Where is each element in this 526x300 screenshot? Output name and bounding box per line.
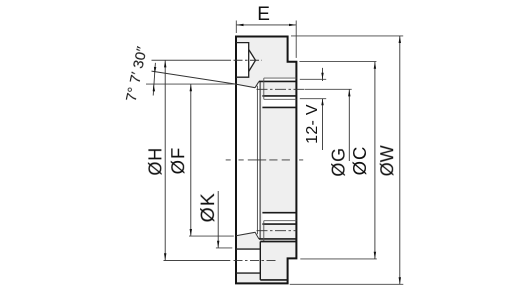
svg-text:ØC: ØC [349, 146, 370, 176]
mirror clearance band lower [264, 239, 297, 241]
bottom stud hole centerline [234, 260, 278, 262]
dimension 12-V lower arrow [321, 99, 323, 105]
dimension F top arrow [190, 84, 192, 91]
svg-text:ØH: ØH [145, 147, 165, 176]
body outline [236, 37, 296, 284]
mirror tapped hole minor bottom [259, 238, 297, 240]
thread end line [263, 78, 265, 99]
dimension E right extension [295, 21, 297, 58]
dimension 12-V upper tail [322, 68, 324, 81]
bottom stud hole top line [236, 248, 260, 250]
cam pocket left wall [259, 242, 261, 280]
angle dimension line [153, 63, 155, 96]
taper line extended [152, 71, 256, 88]
tapped hole centerline top [257, 88, 306, 90]
taper reference horizontal [146, 83, 236, 85]
mirror tapped hole minor top [262, 223, 296, 225]
bottom stud hole bottom line [236, 272, 260, 274]
svg-text:ØG: ØG [329, 147, 349, 177]
top stud hole counterbore [236, 43, 249, 78]
extension C bottom [300, 258, 377, 260]
dimension W bottom arrow [399, 277, 401, 284]
extension G top [305, 88, 352, 90]
mirror clearance band upper [262, 213, 296, 224]
tapped hole major top [264, 77, 297, 79]
bottom stud hole cavity [236, 249, 260, 273]
dimension K extension [216, 247, 232, 249]
tapped hole minor top [259, 80, 297, 82]
bore end face line [259, 82, 261, 239]
dimension 12-V lower tail [322, 99, 324, 150]
dimension H bottom arrow [164, 253, 166, 260]
front recess edge bottom [262, 212, 296, 214]
dimension C bottom arrow [374, 252, 376, 259]
extension C top [299, 61, 376, 63]
top stud hole cavity [236, 43, 256, 78]
extension W top [291, 35, 403, 37]
dimension H top arrow [164, 60, 166, 67]
flange body section fill [236, 37, 296, 284]
svg-text:ØW: ØW [377, 145, 397, 176]
extension W bottom [290, 283, 404, 285]
dimension F line [190, 84, 192, 236]
dimension G arrow [348, 89, 350, 96]
bottom stud hole centerline extension [164, 260, 231, 262]
cam pocket bottom edge [260, 279, 288, 281]
bore end chamfer top [255, 82, 259, 88]
thread clearance band upper [264, 78, 297, 81]
bottom taper line [236, 232, 259, 239]
svg-text:ØK: ØK [197, 192, 219, 222]
front recess edge top [262, 106, 296, 108]
svg-text:E: E [257, 4, 270, 25]
dimension E line [236, 24, 296, 26]
angle arrow upper [154, 67, 156, 74]
main centerline [226, 159, 304, 161]
top stud hole centerline extension [152, 59, 232, 61]
tapped hole minor bottom [262, 95, 296, 97]
dimension C line [374, 62, 376, 259]
dimension W top arrow [399, 36, 401, 43]
svg-text:ØF: ØF [167, 147, 188, 175]
mirror tapped hole centerline [257, 230, 297, 232]
dimension E left extension [235, 21, 237, 34]
angle arrow lower [153, 84, 155, 91]
dimension K arrow [217, 241, 219, 248]
mirror tapped hole major top [264, 220, 297, 222]
dimension G line [348, 89, 350, 161]
tapped hole major bottom [264, 98, 297, 100]
cam pocket top edge [260, 241, 296, 243]
extension V top [300, 78, 326, 80]
dimension F bottom arrow [190, 229, 192, 236]
dimension W line [399, 36, 401, 284]
top stud hole centerline [234, 59, 263, 61]
top stud hole drill cone [249, 50, 256, 72]
bore end chamfer line [256, 86, 258, 234]
dimension H line [164, 60, 166, 260]
dimension F bottom extension [189, 235, 234, 237]
mirror thread end line [263, 221, 265, 242]
dimension K line [217, 191, 219, 248]
dimension 12-V upper arrow [321, 73, 323, 79]
dimension E right arrow [289, 24, 296, 26]
thread clearance band lower [262, 96, 296, 107]
dimension E left arrow [236, 24, 243, 26]
dimension C top arrow [374, 62, 376, 69]
taper bore cavity [236, 82, 260, 239]
extension V bottom [300, 98, 326, 100]
svg-text:12- V: 12- V [304, 104, 321, 144]
